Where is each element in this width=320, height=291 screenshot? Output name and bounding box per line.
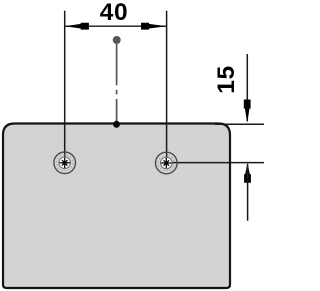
svg-text:40: 40 <box>100 0 128 26</box>
svg-text:15: 15 <box>213 65 240 93</box>
